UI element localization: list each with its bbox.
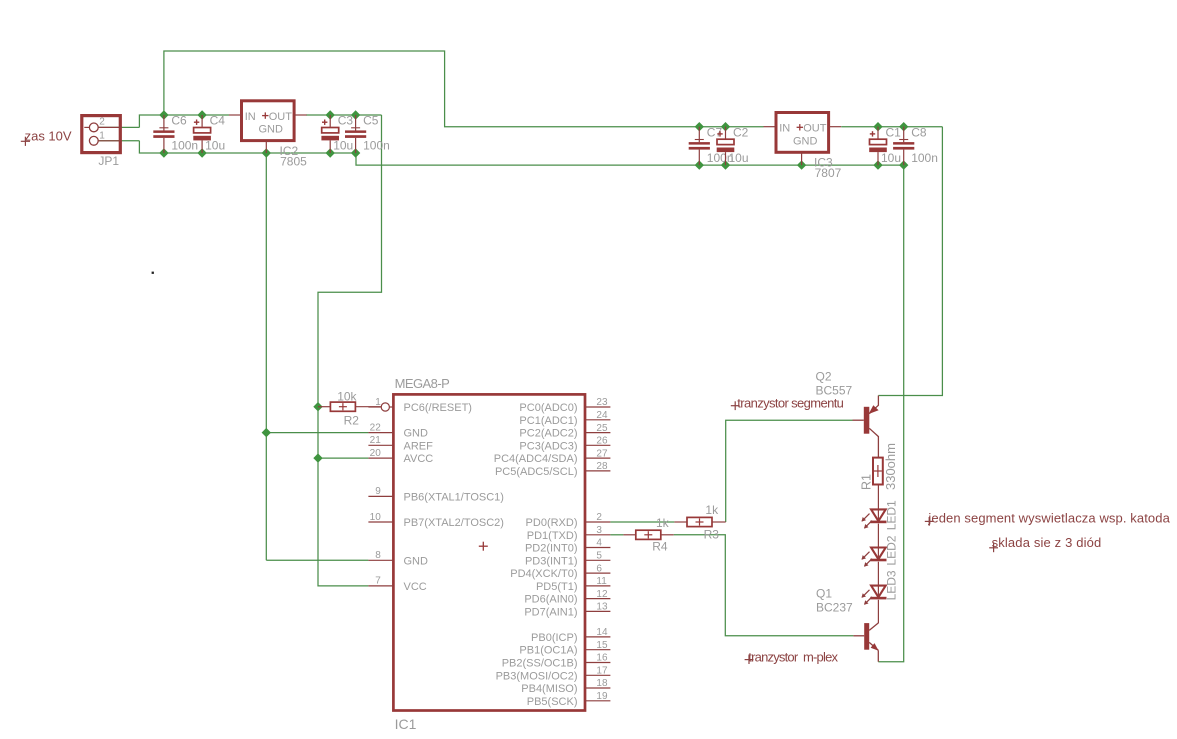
pin stub IC2 GND — [265, 141, 267, 153]
stray dot — [152, 272, 154, 274]
svg-text:10u: 10u — [333, 139, 353, 153]
wire +5V to IC1 VCC — [318, 115, 382, 586]
voltage regulator IC2 7805 — [242, 101, 295, 141]
pin 5 PD3(INT1) of IC1 — [585, 559, 610, 561]
wire R3 to Q2 base — [726, 420, 853, 522]
voltage regulator IC3 7807 — [776, 113, 829, 153]
svg-text:22: 22 — [370, 422, 382, 433]
svg-text:PC6(/RESET): PC6(/RESET) — [404, 402, 472, 414]
svg-text:GND: GND — [793, 135, 818, 147]
svg-text:11: 11 — [596, 576, 607, 587]
plus mark of IC3 — [797, 126, 803, 128]
resistor R3 1k — [687, 517, 712, 526]
svg-text:PB7(XTAL2/TOSC2): PB7(XTAL2/TOSC2) — [404, 517, 504, 529]
wire LED1 to LED2 — [877, 524, 879, 548]
svg-text:jeden segment wyswietlacza wsp: jeden segment wyswietlacza wsp. katoda — [927, 511, 1170, 526]
junction C7 top — [695, 122, 704, 131]
transistor Q2 base stub — [853, 419, 864, 421]
wire IC3 OUT rail — [841, 126, 942, 128]
pin stub R2 left — [318, 406, 330, 408]
svg-text:IN: IN — [779, 123, 790, 135]
junction IC2 GND — [262, 148, 271, 157]
svg-text:17: 17 — [596, 666, 608, 677]
wire +10V to IC2 IN — [139, 115, 229, 127]
junction C8 top — [899, 122, 908, 131]
pin stub IC3 OUT — [829, 126, 842, 128]
svg-text:PC5(ADC5/SCL): PC5(ADC5/SCL) — [495, 466, 578, 478]
pin stub IC3 IN — [764, 126, 777, 128]
wire GND to Q1 emitter — [878, 165, 903, 662]
svg-text:10u: 10u — [205, 139, 225, 153]
wire +7V to Q2 emitter — [878, 127, 942, 396]
wire GND left rail — [139, 141, 356, 153]
pin stub R3 left — [674, 521, 687, 523]
text origin cross jeden segment — [925, 520, 934, 522]
junction C5 top — [351, 110, 360, 119]
resistor R4 1k — [636, 530, 661, 539]
svg-text:OUT: OUT — [803, 123, 827, 135]
svg-text:C1: C1 — [886, 125, 902, 139]
svg-text:C3: C3 — [338, 114, 354, 128]
svg-text:Q1: Q1 — [816, 587, 832, 601]
text origin cross tranzystor m-plex — [745, 659, 754, 661]
svg-text:C4: C4 — [210, 114, 226, 128]
svg-text:18: 18 — [596, 678, 608, 689]
transistor Q2 collector — [869, 428, 878, 457]
text origin cross zas 10V — [21, 140, 30, 142]
svg-text:JP1: JP1 — [98, 154, 119, 168]
svg-text:PD0(RXD): PD0(RXD) — [526, 517, 578, 529]
transistor Q2 BC557 base bar — [864, 407, 870, 434]
wire LED2 to LED3 — [877, 562, 879, 586]
svg-text:6: 6 — [596, 563, 602, 574]
wire JP1 pin2 to corner — [99, 126, 140, 128]
svg-text:7807: 7807 — [815, 166, 842, 180]
svg-text:LED3: LED3 — [885, 570, 899, 600]
svg-text:PC0(ADC0): PC0(ADC0) — [519, 402, 577, 414]
pin 20 AVCC of IC1 — [368, 457, 393, 459]
svg-text:BC237: BC237 — [816, 601, 853, 615]
transistor Q1 emitter — [869, 642, 878, 661]
svg-text:zas 10V: zas 10V — [25, 128, 72, 143]
svg-text:100n: 100n — [911, 151, 938, 165]
svg-text:10k: 10k — [337, 389, 357, 403]
svg-text:Q2: Q2 — [816, 370, 832, 384]
wire GND to IC1 pin 22 — [266, 432, 368, 434]
junction C3 top — [326, 110, 335, 119]
capacitor C2 (polarized) — [717, 127, 735, 165]
svg-text:C2: C2 — [733, 125, 749, 139]
svg-text:R3: R3 — [704, 528, 720, 542]
svg-text:PC1(ADC1): PC1(ADC1) — [519, 415, 577, 427]
pin 6 PD4(XCK/T0) of IC1 — [585, 572, 610, 574]
wire IC1 PD1 to R4 — [610, 534, 623, 536]
pin 3 PD1(TXD) of IC1 — [585, 534, 610, 536]
svg-text:LED2: LED2 — [885, 535, 899, 565]
svg-text:GND: GND — [404, 428, 429, 440]
svg-text:GND: GND — [404, 555, 429, 567]
svg-text:10u: 10u — [729, 151, 749, 165]
svg-text:23: 23 — [596, 397, 608, 408]
LED LED3 — [862, 586, 887, 605]
pin 4 PD2(INT0) of IC1 — [585, 547, 610, 549]
svg-text:PD2(INT0): PD2(INT0) — [525, 543, 578, 555]
svg-text:8: 8 — [375, 550, 381, 561]
svg-text:R4: R4 — [652, 540, 668, 554]
pin 18 PB4(MISO) of IC1 — [585, 687, 610, 689]
svg-text:LED1: LED1 — [885, 500, 899, 530]
wire GND to IC1 pin 8 — [266, 559, 368, 561]
transistor Q1 collector — [869, 623, 878, 631]
pin 16 PB2(SS/OC1B) of IC1 — [585, 662, 610, 664]
svg-text:PC4(ADC4/SDA): PC4(ADC4/SDA) — [494, 453, 578, 465]
pin 8 GND of IC1 — [368, 559, 393, 561]
pin 13 PD7(AIN1) of IC1 — [585, 610, 610, 612]
wire IC2 OUT rail — [306, 114, 381, 116]
pin stub IC2 IN — [229, 114, 242, 116]
svg-text:C5: C5 — [363, 114, 379, 128]
svg-text:tranzystor segmentu: tranzystor segmentu — [737, 396, 843, 411]
connector JP1 — [82, 116, 122, 153]
svg-text:PB1(OC1A): PB1(OC1A) — [519, 645, 577, 657]
svg-text:25: 25 — [596, 423, 608, 434]
svg-text:VCC: VCC — [404, 581, 427, 593]
svg-text:27: 27 — [596, 448, 608, 459]
LED LED1 — [862, 509, 887, 528]
svg-text:GND: GND — [259, 124, 284, 136]
wire +5V to IC1 AVCC — [318, 457, 368, 459]
pin 21 AREF of IC1 — [368, 444, 393, 446]
junction C2 bottom — [721, 160, 730, 169]
pin 7 VCC of IC1 — [368, 585, 393, 587]
svg-text:PD7(AIN1): PD7(AIN1) — [524, 606, 577, 618]
svg-text:14: 14 — [596, 627, 608, 638]
svg-text:C6: C6 — [171, 114, 187, 128]
junction C3 bottom — [326, 148, 335, 157]
pin 2 PD0(RXD) of IC1 — [585, 521, 610, 523]
pin stub IC2 OUT — [294, 114, 307, 116]
junction C4 top — [197, 110, 206, 119]
junction C1 bottom — [873, 160, 882, 169]
svg-text:PB4(MISO): PB4(MISO) — [521, 683, 577, 695]
svg-text:24: 24 — [596, 410, 608, 421]
plus mark of IC2 — [262, 115, 268, 117]
svg-text:2: 2 — [596, 512, 602, 523]
pin stub R4 left — [623, 534, 635, 536]
svg-text:7805: 7805 — [280, 154, 307, 168]
junction R2 +5V — [313, 402, 322, 411]
junction GND pin22 — [262, 428, 271, 437]
svg-text:AVCC: AVCC — [404, 453, 434, 465]
svg-text:1k: 1k — [656, 516, 670, 530]
pin 28 PC5(ADC5/SCL) of IC1 — [585, 470, 610, 472]
svg-text:PD3(INT1): PD3(INT1) — [525, 555, 578, 567]
pin 22 GND of IC1 — [368, 432, 393, 434]
svg-text:330ohm: 330ohm — [883, 443, 898, 490]
svg-text:PD5(T1): PD5(T1) — [536, 581, 578, 593]
svg-text:9: 9 — [375, 486, 381, 497]
pin 19 PB5(SCK) of IC1 — [585, 700, 610, 702]
pin 24 PC1(ADC1) of IC1 — [585, 419, 610, 421]
wire LED3 to Q1 collector — [877, 600, 879, 623]
svg-text:28: 28 — [596, 461, 608, 472]
svg-text:100n: 100n — [363, 139, 390, 153]
svg-text:IN: IN — [245, 111, 256, 123]
svg-text:1k: 1k — [705, 503, 719, 517]
wire IC1 PD0 to R3 — [610, 521, 674, 523]
pin stub R2 right to reset circle — [355, 406, 381, 408]
capacitor C5 — [345, 115, 366, 153]
svg-text:PD6(AIN0): PD6(AIN0) — [524, 594, 577, 606]
svg-text:PC3(ADC3): PC3(ADC3) — [519, 440, 577, 452]
pin stub R3 right — [712, 521, 726, 523]
svg-text:MEGA8-P: MEGA8-P — [395, 376, 450, 391]
resistor R2 10k — [330, 402, 355, 411]
svg-text:PD4(XCK/T0): PD4(XCK/T0) — [510, 568, 577, 580]
text origin cross tranzystor segmentu — [731, 405, 740, 407]
pin 14 PB0(ICP) of IC1 — [585, 636, 610, 638]
svg-text:13: 13 — [596, 602, 608, 613]
transistor Q1 BC237 base bar — [864, 623, 869, 650]
pin 15 PB1(OC1A) of IC1 — [585, 649, 610, 651]
svg-text:sklada sie z 3 diód: sklada sie z 3 diód — [992, 535, 1102, 550]
svg-text:2: 2 — [99, 117, 105, 128]
junction C6 top — [159, 110, 168, 119]
pin 25 PC2(ADC2) of IC1 — [585, 432, 610, 434]
svg-text:26: 26 — [596, 436, 608, 447]
capacitor C8 — [893, 127, 914, 165]
junction C8 bottom — [899, 160, 908, 169]
junction C5 bottom — [351, 148, 360, 157]
svg-text:20: 20 — [370, 448, 382, 459]
svg-text:3: 3 — [596, 525, 602, 536]
junction C1 top — [873, 122, 882, 131]
pin 10 PB7(XTAL2/TOSC2) of IC1 — [368, 521, 393, 523]
pin 9 PB6(XTAL1/TOSC1) of IC1 — [368, 495, 393, 497]
capacitor C4 (polarized) — [193, 115, 211, 153]
capacitor C6 — [153, 115, 174, 153]
svg-text:1: 1 — [99, 131, 105, 142]
pin 17 PB3(MOSI/OC2) of IC1 — [585, 674, 610, 676]
svg-text:PB6(XTAL1/TOSC1): PB6(XTAL1/TOSC1) — [404, 491, 504, 503]
pin 23 PC0(ADC0) of IC1 — [585, 406, 610, 408]
capacitor C3 (polarized) — [321, 115, 339, 153]
svg-text:PB2(SS/OC1B): PB2(SS/OC1B) — [502, 658, 578, 670]
svg-text:PB3(MOSI/OC2): PB3(MOSI/OC2) — [496, 670, 578, 682]
junction C2 top — [721, 122, 730, 131]
svg-text:PB5(SCK): PB5(SCK) — [527, 696, 578, 708]
pin 1 PC6(/RESET) of IC1 — [368, 403, 393, 411]
svg-text:100n: 100n — [171, 139, 198, 153]
svg-text:tranzystor m-plex: tranzystor m-plex — [748, 649, 838, 664]
transistor Q2 emitter — [869, 396, 879, 415]
svg-text:12: 12 — [596, 589, 608, 600]
svg-text:5: 5 — [596, 551, 602, 562]
wire +10V top rail to IC3 IN — [164, 51, 764, 127]
wire R4 to Q1 base — [674, 535, 854, 636]
origin cross of IC1 — [479, 545, 488, 547]
svg-text:10: 10 — [370, 512, 382, 523]
capacitor C7 — [689, 127, 710, 165]
wire GND bottom rail right — [356, 153, 904, 165]
junction AVCC +5V — [313, 453, 322, 462]
svg-text:PD1(TXD): PD1(TXD) — [527, 530, 578, 542]
svg-text:4: 4 — [596, 538, 602, 549]
svg-text:C8: C8 — [911, 125, 927, 139]
junction C6 bottom — [159, 148, 168, 157]
pin stub IC3 GND — [801, 152, 803, 165]
pin 26 PC3(ADC3) of IC1 — [585, 444, 610, 446]
svg-text:16: 16 — [596, 653, 608, 664]
pin 27 PC4(ADC4/SDA) of IC1 — [585, 457, 610, 459]
svg-text:PC2(ADC2): PC2(ADC2) — [519, 428, 577, 440]
LED LED2 — [862, 548, 887, 567]
junction C7 bottom — [695, 160, 704, 169]
transistor Q1 base stub — [853, 635, 864, 637]
svg-text:10u: 10u — [881, 151, 901, 165]
svg-text:7: 7 — [375, 576, 381, 587]
resistor R1 330ohm — [873, 458, 883, 485]
svg-text:AREF: AREF — [404, 440, 434, 452]
svg-text:R2: R2 — [344, 414, 360, 428]
pin 12 PD6(AIN0) of IC1 — [585, 598, 610, 600]
junction IC3 GND — [797, 160, 806, 169]
wire R1 to LED1 — [877, 485, 879, 510]
wire GND vertical to IC1 — [265, 153, 267, 560]
svg-text:IC1: IC1 — [395, 716, 417, 732]
text origin cross sklada sie — [989, 547, 998, 549]
svg-text:PB0(ICP): PB0(ICP) — [531, 632, 577, 644]
svg-text:21: 21 — [370, 435, 382, 446]
svg-text:15: 15 — [596, 640, 608, 651]
capacitor C1 (polarized) — [869, 127, 887, 165]
wire JP1 pin1 to corner — [99, 140, 140, 142]
svg-text:OUT: OUT — [269, 111, 293, 123]
pin stub R4 right — [661, 534, 674, 536]
microcontroller IC1 MEGA8-P body — [393, 394, 585, 710]
pin 11 PD5(T1) of IC1 — [585, 585, 610, 587]
junction C4 bottom — [197, 148, 206, 157]
svg-text:19: 19 — [596, 691, 608, 702]
svg-text:R1: R1 — [859, 474, 873, 490]
